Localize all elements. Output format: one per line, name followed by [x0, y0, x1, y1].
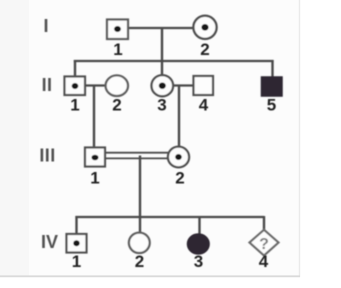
svg-text:IV: IV — [41, 232, 58, 252]
wire: drop to II-1 — [74, 60, 76, 77]
svg-text:2: 2 — [175, 169, 184, 188]
individual II-3 carrier female (circle with dot) — [152, 75, 174, 96]
wire: descent from couple II-3/II-4 to III-2 — [178, 86, 180, 148]
svg-text:1: 1 — [113, 40, 122, 59]
svg-text:3: 3 — [157, 96, 166, 115]
svg-text:5: 5 — [267, 96, 276, 115]
wire: consanguineous double line III-1 to III-2 (upper) — [105, 152, 169, 154]
individual II-5 affected male (filled square) — [262, 77, 283, 96]
svg-text:2: 2 — [112, 96, 121, 115]
individual III-2 carrier female (circle with dot) — [168, 147, 189, 168]
svg-text:?: ? — [259, 236, 269, 253]
wire: couple line II-3 to II-4 — [172, 84, 194, 86]
individual II-1 carrier male (square with dot) — [65, 77, 86, 96]
wire: consanguineous double line III-1 to III-2 (lower) — [105, 157, 169, 159]
individual IV-4 unknown sex/status (diamond with question mark) — [250, 230, 279, 256]
individual II-2 unaffected female (circle) — [106, 75, 128, 96]
svg-text:3: 3 — [194, 252, 203, 271]
svg-text:4: 4 — [199, 96, 209, 115]
svg-text:2: 2 — [200, 40, 209, 59]
svg-text:II: II — [42, 75, 53, 95]
svg-text:2: 2 — [135, 252, 144, 271]
wire: couple line II-1 to II-2 — [85, 84, 106, 86]
wire: sibship line generation IV — [75, 216, 264, 218]
wire: sibship line generation II — [74, 60, 274, 62]
individual II-4 unaffected male (square) — [194, 76, 214, 95]
individual IV-1 carrier male (square with dot) — [67, 234, 87, 253]
svg-text:III: III — [39, 146, 55, 166]
individual I-2 carrier female (circle with dot) — [193, 16, 216, 39]
svg-text:1: 1 — [70, 96, 79, 115]
svg-text:1: 1 — [90, 169, 99, 188]
individual IV-2 unaffected female (circle) — [129, 233, 150, 253]
svg-text:I: I — [43, 16, 48, 36]
individual IV-3 affected female (filled circle) — [188, 234, 210, 254]
wire: drop to II-5 — [271, 60, 273, 78]
individual I-1 carrier male (square with dot) — [107, 20, 128, 40]
wire: descent from couple III through sibship to IV-2 — [139, 156, 141, 234]
svg-text:4: 4 — [259, 252, 269, 271]
individual III-1 carrier male (square with dot) — [85, 148, 105, 167]
svg-text:1: 1 — [72, 252, 81, 271]
wire: drop to IV-4 — [263, 216, 265, 231]
wire: drop to IV-1 — [75, 216, 77, 235]
wire: drop to IV-3 — [198, 216, 200, 235]
wire: descent from couple II-1/II-2 to III-1 — [93, 86, 95, 148]
wire: couple line I-1 to I-2 — [128, 27, 194, 29]
wire: descent from couple I through sibship to II-3 — [161, 28, 163, 76]
